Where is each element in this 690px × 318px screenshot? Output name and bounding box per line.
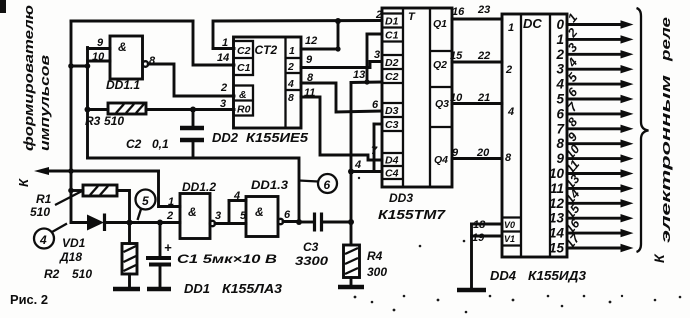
svg-text:12: 12 <box>305 35 317 47</box>
svg-text:510: 510 <box>104 114 124 128</box>
output 12 of DD4 with arrow <box>549 187 634 211</box>
wire: R3 to DD2 pin 3 <box>146 108 234 111</box>
svg-text:Q3: Q3 <box>435 98 449 110</box>
wire: DD4 strobe pins 18,19 to ground <box>472 224 503 290</box>
svg-text:R3: R3 <box>85 114 101 128</box>
svg-text:R2: R2 <box>44 267 60 281</box>
svg-text:DD1: DD1 <box>184 281 210 296</box>
label pointer R1 <box>55 191 83 206</box>
brace <box>637 8 649 252</box>
test point 4 <box>34 224 67 249</box>
svg-text:4: 4 <box>233 190 240 202</box>
svg-text:8: 8 <box>288 92 294 104</box>
svg-text:DD1.3: DD1.3 <box>251 178 288 192</box>
svg-text:15: 15 <box>450 50 463 62</box>
svg-text:4: 4 <box>354 159 361 171</box>
svg-text:8: 8 <box>505 152 512 164</box>
wire: top rail <box>71 20 193 23</box>
counter DD2 K155ИЕ5 <box>234 37 302 128</box>
svg-text:D3: D3 <box>385 105 399 117</box>
gate DD1.2 <box>180 194 210 239</box>
svg-text:&: & <box>118 40 127 54</box>
svg-text:C3: C3 <box>385 119 399 131</box>
svg-text:импульсов: импульсов <box>37 55 52 151</box>
output 7 of DD4 with arrow <box>556 115 633 136</box>
svg-text:6: 6 <box>372 99 379 111</box>
svg-text:10: 10 <box>450 92 463 104</box>
output 13 of DD4 with arrow <box>549 201 634 226</box>
svg-text:C4: C4 <box>385 168 399 180</box>
svg-text:1: 1 <box>508 22 514 34</box>
svg-text:реле: реле <box>658 17 673 62</box>
resistor R3 <box>88 103 147 114</box>
scan corner mark <box>0 0 6 13</box>
resistor R1 <box>71 185 130 223</box>
capacitor C1 electrolytic <box>146 223 172 289</box>
svg-text:К: К <box>651 253 667 263</box>
svg-text:V0: V0 <box>504 220 515 230</box>
gate DD1.2 output bubble <box>210 221 215 226</box>
svg-text:R0: R0 <box>237 104 251 116</box>
resistor R2 <box>122 223 137 289</box>
svg-text:C2: C2 <box>237 45 251 57</box>
svg-text:2: 2 <box>220 82 227 94</box>
svg-text:Рис. 2: Рис. 2 <box>10 292 48 307</box>
node label: К формирователю импульсов (vertical text) <box>16 5 52 187</box>
svg-text:DD4: DD4 <box>490 268 517 283</box>
output 5 of DD4 with arrow <box>556 84 633 106</box>
output 10 of DD4 with arrow <box>549 157 634 181</box>
svg-text:3: 3 <box>556 62 564 77</box>
svg-text:510: 510 <box>30 205 50 219</box>
svg-text:C1: C1 <box>237 62 251 74</box>
svg-text:C2: C2 <box>126 137 142 151</box>
gate DD1.3 <box>246 197 278 237</box>
svg-text:V1: V1 <box>504 234 515 244</box>
wire: DD2 out1 pin12 stub <box>301 48 338 51</box>
output 4 of DD4 with arrow <box>555 69 633 91</box>
svg-text:DD2: DD2 <box>212 130 239 145</box>
svg-text:5: 5 <box>556 92 564 107</box>
svg-text:VD1: VD1 <box>62 236 86 250</box>
svg-text:C3: C3 <box>303 240 319 254</box>
svg-text:C1 5мк×10 В: C1 5мк×10 В <box>177 252 277 266</box>
svg-text:20: 20 <box>476 147 490 159</box>
svg-text:9: 9 <box>452 147 459 159</box>
wire: DD1.1 input tie pins 9,10 <box>85 48 110 69</box>
svg-text:&: & <box>255 205 264 219</box>
svg-text:2: 2 <box>505 64 512 76</box>
svg-text:DC: DC <box>523 16 542 31</box>
output 11 of DD4 with arrow <box>550 172 634 196</box>
wire: DD2 out4 to DD3 D4 <box>301 97 382 160</box>
svg-text:23: 23 <box>477 4 490 16</box>
svg-text:11: 11 <box>550 181 564 196</box>
svg-text:D1: D1 <box>385 16 399 28</box>
resistor R4 <box>344 219 360 286</box>
svg-text:2: 2 <box>555 47 564 62</box>
svg-text:9: 9 <box>97 37 104 49</box>
svg-text:18: 18 <box>473 219 486 231</box>
output 2 of DD4 with arrow <box>555 40 633 61</box>
svg-text:Q1: Q1 <box>433 18 447 30</box>
wire: DD1.2 out to DD1.3 inputs 4,5 <box>215 201 246 224</box>
wire: Q4 to DD4 input 8 <box>452 157 502 160</box>
wire: clock bus from C3/R4 node up to DD3 C inputs <box>348 34 382 223</box>
svg-text:510: 510 <box>72 267 92 281</box>
node label: К электронным реле (vertical text) <box>651 17 673 263</box>
output 1 of DD4 with arrow <box>556 26 633 47</box>
svg-text:&: & <box>188 205 197 219</box>
svg-text:C1: C1 <box>385 30 399 42</box>
output 9 of DD4 with arrow <box>556 142 633 166</box>
svg-text:3300: 3300 <box>295 254 328 268</box>
svg-text:2: 2 <box>166 210 173 222</box>
wire: DD1.1 output to DD2 pin 2 <box>148 64 234 96</box>
ground DD4 <box>457 288 486 293</box>
svg-text:К155ЛА3: К155ЛА3 <box>222 281 283 296</box>
svg-text:8: 8 <box>556 136 564 151</box>
svg-text:К155ИД3: К155ИД3 <box>528 268 587 283</box>
ground C1 <box>147 287 171 292</box>
wire: vertical from DD1.1 inputs down to R3 <box>86 66 89 158</box>
svg-text:3: 3 <box>374 49 380 61</box>
svg-text:R4: R4 <box>367 249 383 263</box>
wire: DD2 feedback line out1 to C2 input and DD3 D1 <box>213 18 382 52</box>
wire: Q1 to DD4 input 1 <box>452 18 502 21</box>
gate DD1.3 output bubble <box>278 219 283 224</box>
svg-text:DD1.1: DD1.1 <box>106 78 140 92</box>
scan specks <box>354 177 682 314</box>
svg-text:D4: D4 <box>385 155 399 167</box>
output 0 of DD4 with arrow <box>556 11 633 32</box>
wire: DD2 out3 to DD3 D3 <box>301 83 382 112</box>
wire: link to DD1.1 inputs <box>71 65 88 68</box>
svg-text:К155ИЕ5: К155ИЕ5 <box>246 130 309 145</box>
svg-text:5: 5 <box>142 194 149 208</box>
svg-text:16: 16 <box>452 6 465 18</box>
svg-text:1: 1 <box>289 45 295 57</box>
capacitor C2 <box>180 110 204 159</box>
svg-text:+: + <box>164 240 172 255</box>
svg-text:Q4: Q4 <box>434 154 448 166</box>
test point 5 <box>136 190 156 221</box>
svg-text:4: 4 <box>507 106 514 118</box>
svg-text:формирователю: формирователю <box>21 5 36 151</box>
output 15 of DD4 with arrow <box>549 231 634 256</box>
svg-text:C2: C2 <box>385 71 399 83</box>
svg-text:1: 1 <box>168 196 174 208</box>
svg-text:R1: R1 <box>36 192 52 206</box>
wire: DD2 out2 to DD3 D2 <box>301 62 382 68</box>
svg-text:4: 4 <box>555 77 564 92</box>
output 14 of DD4 with arrow <box>549 216 634 241</box>
svg-text:3: 3 <box>215 210 221 222</box>
svg-text:DD1.2: DD1.2 <box>182 180 216 194</box>
svg-text:CT2: CT2 <box>255 43 278 57</box>
svg-text:4: 4 <box>39 233 47 247</box>
svg-text:10: 10 <box>92 51 105 63</box>
svg-text:Д18: Д18 <box>59 250 82 264</box>
node junction dots on left bus <box>68 63 74 69</box>
diode VD1 <box>71 214 105 232</box>
svg-text:&: & <box>239 89 247 101</box>
svg-text:электронным: электронным <box>658 74 673 243</box>
svg-text:14: 14 <box>217 52 229 64</box>
latch DD3 K155ТМ7 <box>382 8 452 187</box>
svg-text:К: К <box>16 178 31 187</box>
svg-text:19: 19 <box>472 232 485 244</box>
svg-text:3: 3 <box>220 98 226 110</box>
output 8 of DD4 with arrow <box>556 130 633 151</box>
wire: lower rail from R3/C2 to DD1.3 output node <box>88 158 300 223</box>
svg-text:0,1: 0,1 <box>152 137 169 151</box>
svg-text:4: 4 <box>287 78 294 90</box>
svg-text:D2: D2 <box>385 57 399 69</box>
gate DD1.1 <box>110 36 143 79</box>
svg-text:21: 21 <box>477 92 490 104</box>
svg-text:6: 6 <box>324 178 331 192</box>
wire: Q2 to DD4 input 2 <box>452 61 502 64</box>
wire: left vertical bus <box>70 21 73 223</box>
node junction R3 <box>85 107 91 113</box>
output 6 of DD4 with arrow <box>556 99 633 121</box>
svg-text:6: 6 <box>284 209 291 221</box>
svg-text:2: 2 <box>287 61 294 73</box>
svg-text:10: 10 <box>549 166 565 181</box>
output 3 of DD4 with arrow <box>556 55 633 76</box>
wire: DD1.3 output node <box>283 220 299 223</box>
ground R4 <box>338 285 364 290</box>
svg-text:DD3: DD3 <box>389 191 413 205</box>
wire: rail down to DD2 pin 14 (C1) <box>193 21 234 65</box>
svg-text:0: 0 <box>556 17 564 32</box>
wire: VD1 cathode to DD1.2 pin 2 <box>105 221 181 224</box>
wire: Q3 to DD4 input 4 <box>452 102 502 105</box>
decoder DD4 К155ИД3 <box>502 14 567 257</box>
ground R2 <box>113 287 140 292</box>
svg-text:22: 22 <box>477 50 490 62</box>
svg-text:Q2: Q2 <box>433 59 447 71</box>
svg-text:6: 6 <box>556 106 564 121</box>
wire: arrow line to DD1.2 pin 1 <box>159 171 181 207</box>
node junction C2 <box>190 107 196 113</box>
gate DD1.1 output bubble <box>143 61 149 67</box>
svg-text:1: 1 <box>556 32 564 47</box>
svg-text:К155ТМ7: К155ТМ7 <box>378 207 446 222</box>
wire: output arrow to pulse former <box>34 167 71 175</box>
svg-text:300: 300 <box>367 265 387 279</box>
test point 6 <box>299 174 337 193</box>
capacitor C3 <box>299 213 351 232</box>
svg-text:13: 13 <box>353 69 365 81</box>
svg-text:9: 9 <box>306 54 313 66</box>
svg-text:1: 1 <box>222 37 228 49</box>
